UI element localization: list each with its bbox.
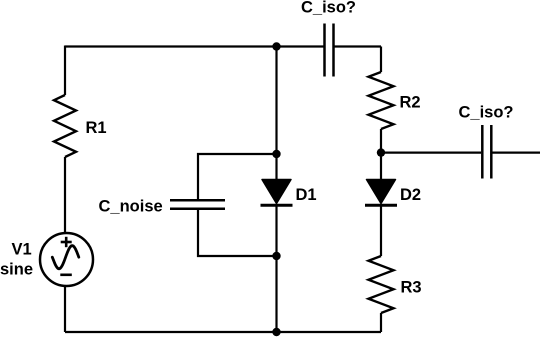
- svg-text:C_iso?: C_iso?: [459, 104, 514, 122]
- svg-text:R1: R1: [86, 119, 107, 137]
- svg-text:V1: V1: [12, 240, 32, 258]
- svg-text:sine: sine: [0, 261, 33, 279]
- svg-text:R3: R3: [401, 279, 422, 297]
- svg-text:C_noise: C_noise: [99, 198, 163, 216]
- svg-text:C_iso?: C_iso?: [301, 0, 356, 16]
- svg-text:D1: D1: [296, 186, 317, 204]
- svg-text:D2: D2: [400, 186, 421, 204]
- svg-text:R2: R2: [400, 94, 421, 112]
